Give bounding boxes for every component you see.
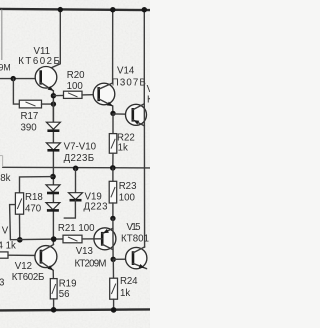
svg-text:390: 390 (21, 123, 38, 134)
wire R23 top (112, 168, 114, 181)
wire R17 right to emitter line (42, 103, 54, 105)
svg-text:R23: R23 (119, 181, 137, 192)
top supply bus wire (0, 9, 150, 10)
svg-text:8k: 8k (0, 173, 10, 184)
svg-text:1k: 1k (118, 143, 128, 154)
svg-text:V14: V14 (117, 65, 135, 76)
svg-text:R20: R20 (67, 70, 85, 81)
node junction at V11 base (11, 76, 16, 81)
node junction top bus / V14 collector (110, 7, 115, 12)
node junction top bus / V16 collector (142, 7, 147, 12)
wire V14 emitter down (112, 106, 114, 113)
transistor V13 (94, 218, 116, 259)
transistor V11 collector wire to top bus (41, 10, 61, 73)
transistor V12 (35, 245, 57, 271)
svg-text:V7-V10: V7-V10 (64, 141, 97, 152)
wire R22 top (112, 114, 114, 134)
wire to V12 base (8, 254, 41, 256)
resistor R18 (15, 193, 23, 214)
wire V11 emitter down (52, 91, 54, 123)
svg-text:V12: V12 (15, 261, 32, 272)
svg-text:100: 100 (67, 81, 84, 92)
transistor V16 (label cropped) (126, 104, 147, 126)
bottom supply bus wire (0, 309, 150, 310)
wire R18 bottom (19, 214, 21, 240)
left-edge cropped component stub (top) (1, 10, 3, 61)
svg-text:9М: 9М (0, 62, 11, 72)
svg-text:Д223: Д223 (84, 202, 108, 213)
wire V16 collector to top bus (143, 10, 145, 104)
wire R18 wiper tap (10, 205, 16, 240)
svg-text:КТ801: КТ801 (121, 234, 149, 245)
wire R24 bottom to bottom bus (113, 299, 115, 310)
wire V19 anode (75, 168, 77, 192)
diode V7 (46, 122, 60, 131)
node junction emitter/R20 (51, 93, 56, 98)
node junction R17/emitter line (51, 101, 56, 106)
resistor R24 (110, 278, 118, 299)
svg-text:П307В: П307В (112, 77, 146, 88)
svg-text:V13: V13 (76, 246, 93, 257)
resistor R21 (63, 235, 82, 243)
wire V16 emitter down to V15 collector (143, 126, 145, 247)
svg-text:4 1k: 4 1k (0, 241, 16, 252)
node junction bottom bus / R19 (51, 307, 57, 313)
wire to V15 base (113, 258, 133, 260)
resistor R20 (64, 91, 83, 98)
svg-text:R21 100: R21 100 (58, 223, 95, 234)
resistor cropped at left edge (V12 base) (0, 252, 8, 258)
wire R19 bottom to bottom bus (53, 299, 55, 310)
diode chain wire (collector of V11 emitter line down) (52, 104, 54, 244)
svg-text:V15: V15 (127, 222, 141, 233)
svg-text:R24: R24 (120, 276, 138, 287)
wire R21 to V13 base (82, 238, 102, 240)
node junction V13 emitter / R23 (110, 216, 115, 221)
svg-text:V1: V1 (147, 84, 150, 95)
resistor R22 (109, 134, 117, 154)
node junction diode chain / V12 collector / R21 (51, 236, 57, 242)
node junction R18 bottom (17, 237, 23, 243)
svg-text:КТ: КТ (147, 95, 150, 106)
wire junction to R17 left (13, 79, 19, 105)
svg-text:56: 56 (59, 289, 70, 300)
left-edge cropped resistor box (middle) (0, 156, 3, 168)
svg-text:Д223Б: Д223Б (64, 153, 95, 164)
svg-text:470: 470 (25, 204, 42, 215)
diode V8 (46, 143, 60, 150)
transistor V15 (126, 247, 147, 269)
wire R24 top (112, 259, 114, 278)
wire base row to R21 (11, 238, 63, 241)
diode V10 (46, 203, 60, 211)
resistor R17 (19, 100, 41, 108)
wire V14 collector to top bus (112, 10, 114, 83)
node junction top bus / V11 collector (58, 7, 63, 12)
wire to R20 (53, 94, 63, 96)
node junction V13 collector / V15 base / R24 (111, 257, 116, 262)
svg-text:R17: R17 (21, 111, 39, 122)
svg-text:3: 3 (0, 278, 4, 289)
resistor R19 (50, 279, 57, 299)
middle horizontal bus wire (3, 166, 150, 169)
wire R18 top to diode chain (20, 177, 53, 193)
node junction V14 emitter / V16 base / R22 (110, 111, 115, 116)
wire R20 to V14 base (82, 94, 99, 96)
transistor V11 (35, 67, 57, 91)
node junction middle bus / R22 / R23 (110, 165, 116, 171)
svg-text:КТ209М: КТ209М (75, 258, 107, 269)
svg-text:1k: 1k (120, 288, 130, 299)
svg-text:КТ602Б: КТ602Б (18, 56, 60, 67)
wire to V16 base (113, 113, 133, 115)
wire R23 bottom (112, 203, 114, 218)
wire V19 cathode down and left (64, 201, 75, 219)
svg-text:100: 100 (119, 193, 136, 204)
diode V9 (46, 185, 60, 193)
node junction bottom bus / R24 (111, 307, 117, 313)
svg-text:V: V (2, 225, 9, 236)
wire V11 base from left edge (0, 78, 40, 80)
wire V12 emitter to R19 (52, 270, 54, 278)
svg-text:R18: R18 (25, 192, 43, 203)
transistor V14 (93, 83, 115, 106)
svg-text:КТ602Б: КТ602Б (12, 272, 45, 283)
node junction middle bus / V19 branch (73, 166, 79, 172)
diode V19 (69, 193, 83, 201)
wire R22 bottom to middle bus (112, 153, 114, 168)
resistor R23 (109, 181, 117, 203)
node junction R18 tap / diode chain (50, 174, 56, 180)
